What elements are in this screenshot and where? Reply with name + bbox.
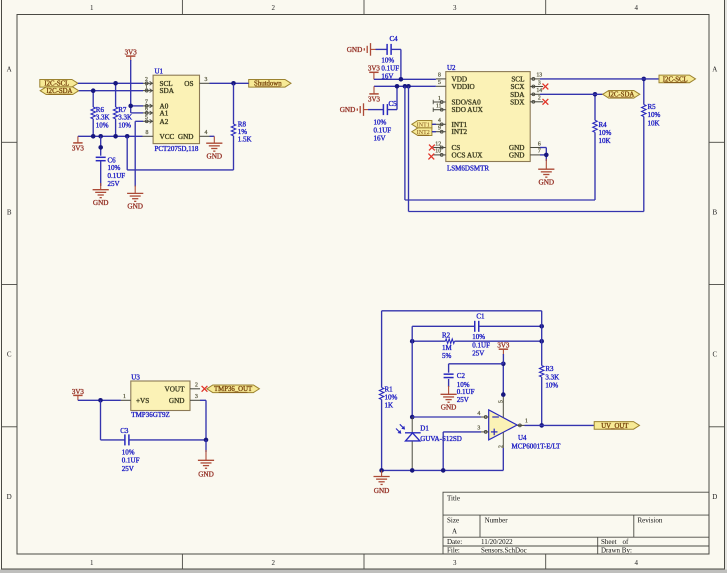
- svg-text:A1: A1: [160, 109, 169, 117]
- wire VDD net: [374, 78, 436, 80]
- ground C2 GND: [441, 393, 457, 395]
- port I2C-SDA right: [603, 91, 640, 99]
- svg-text:GND: GND: [539, 178, 555, 186]
- U2 pin 7 GND: [530, 154, 540, 156]
- svg-text:C3: C3: [120, 427, 129, 435]
- svg-text:3V3: 3V3: [368, 96, 381, 104]
- svg-text:10%: 10%: [385, 393, 398, 401]
- svg-text:2: 2: [271, 4, 275, 12]
- junction R7-SCL: [113, 81, 118, 86]
- svg-text:25V: 25V: [122, 465, 134, 473]
- svg-text:2: 2: [271, 559, 275, 567]
- svg-text:8: 8: [146, 130, 149, 136]
- svg-text:25V: 25V: [108, 180, 120, 188]
- svg-text:C2: C2: [457, 372, 466, 380]
- svg-text:GND: GND: [509, 151, 525, 159]
- svg-text:PCT2075D,118: PCT2075D,118: [155, 145, 199, 153]
- svg-text:11/20/2022: 11/20/2022: [481, 538, 513, 546]
- svg-text:10%: 10%: [545, 381, 558, 389]
- svg-text:INT2: INT2: [452, 128, 468, 136]
- ground A2 GND: [127, 192, 143, 194]
- power 3V3 U3: [73, 394, 82, 396]
- svg-text:U4: U4: [518, 434, 527, 442]
- junction rail C6: [98, 134, 103, 139]
- svg-text:7: 7: [538, 149, 541, 155]
- wire INT1: [432, 123, 436, 125]
- U1 pin 2 SCL: [143, 82, 153, 84]
- svg-text:R4: R4: [599, 121, 608, 129]
- capacitor C3: [100, 400, 102, 440]
- svg-text:4: 4: [635, 559, 639, 567]
- U2 pin 13 SCL: [530, 78, 540, 80]
- wire INT2: [432, 131, 436, 133]
- resistor R3: [541, 311, 543, 366]
- ground power C4 GND: [370, 43, 372, 56]
- svg-text:B: B: [712, 209, 717, 217]
- svg-text:Date:: Date:: [447, 538, 462, 546]
- port I2C-SDA left: [40, 87, 78, 95]
- svg-text:VOUT: VOUT: [165, 385, 186, 393]
- svg-text:25V: 25V: [472, 349, 484, 357]
- ground C6 GND: [93, 189, 109, 191]
- svg-text:Sensors.SchDoc: Sensors.SchDoc: [481, 546, 527, 554]
- U2 pin 4 INT1: [433, 123, 446, 125]
- junction C3 GND node: [204, 438, 209, 443]
- svg-text:0.1UF: 0.1UF: [457, 388, 475, 396]
- svg-text:SDA: SDA: [160, 87, 175, 95]
- ground U1 GND: [206, 142, 222, 144]
- no-ERC CS: [429, 145, 435, 151]
- junction vertB VDDIO: [406, 84, 411, 89]
- svg-text:10%: 10%: [118, 121, 131, 129]
- svg-text:10%: 10%: [122, 449, 135, 457]
- junction C1 right: [539, 324, 544, 329]
- svg-text:C5: C5: [389, 100, 398, 108]
- wire U3 GND down: [200, 399, 206, 401]
- svg-text:3V3: 3V3: [497, 342, 510, 350]
- no-ERC SCX: [543, 84, 549, 90]
- junction C5 VDDIO: [395, 84, 400, 89]
- U1 pin 8 VCC: [143, 135, 154, 137]
- wire top rail: [382, 310, 542, 312]
- svg-text:0.1UF: 0.1UF: [381, 64, 399, 72]
- svg-text:5: 5: [438, 80, 441, 86]
- svg-text:3V3: 3V3: [125, 49, 138, 57]
- junction C4 VDD: [399, 77, 404, 82]
- junction +VS C3: [98, 398, 103, 403]
- svg-text:Size: Size: [447, 516, 459, 524]
- component U3 body: [131, 381, 190, 411]
- svg-text:16V: 16V: [374, 134, 386, 142]
- wire VDDIO branch B: [408, 86, 410, 211]
- svg-text:10%: 10%: [374, 118, 387, 126]
- svg-text:SCX: SCX: [511, 83, 526, 91]
- no-ERC SDX: [543, 99, 549, 105]
- no-ERC VOUT: [202, 386, 208, 392]
- capacitor C1: [412, 325, 475, 327]
- svg-text:A: A: [452, 528, 457, 536]
- svg-text:0.1UF: 0.1UF: [374, 126, 392, 134]
- junction inverting input: [410, 415, 415, 420]
- svg-text:D: D: [7, 493, 12, 501]
- svg-text:4: 4: [635, 4, 639, 12]
- U3 pin 2 VOUT: [190, 388, 200, 390]
- component U1 body: [153, 75, 199, 143]
- resistor R5: [642, 105, 646, 117]
- svg-text:A2: A2: [160, 118, 169, 126]
- frame row ticks: [2, 141, 18, 143]
- U1 pin 4 GND: [200, 135, 210, 137]
- junction R4 SDA: [593, 92, 598, 97]
- junction R5 SCL: [642, 77, 647, 82]
- svg-text:File:: File:: [447, 546, 460, 554]
- svg-text:4: 4: [477, 411, 480, 417]
- svg-text:5: 5: [498, 400, 504, 403]
- U2 pin 11 SDO AUX: [433, 109, 446, 111]
- power 3V3 left: [77, 136, 79, 143]
- svg-text:3: 3: [453, 559, 457, 567]
- wire OS net: [210, 82, 249, 84]
- wire U2 GND pins: [540, 147, 546, 149]
- svg-text:2: 2: [499, 445, 505, 448]
- svg-text:B: B: [7, 209, 12, 217]
- ground power C5 GND: [363, 103, 365, 116]
- svg-text:25V: 25V: [457, 396, 469, 404]
- svg-text:3.3K: 3.3K: [545, 373, 559, 381]
- svg-text:GUVA-S12SD: GUVA-S12SD: [420, 435, 462, 443]
- port UV_OUT: [594, 422, 639, 430]
- wire A2 to GND: [135, 120, 143, 122]
- svg-text:10%: 10%: [381, 56, 394, 64]
- component U2 body: [446, 72, 530, 162]
- svg-text:GND: GND: [340, 106, 356, 114]
- wire bottom gnd rail: [382, 469, 504, 471]
- svg-text:R5: R5: [648, 103, 657, 111]
- svg-text:5%: 5%: [442, 352, 452, 360]
- svg-text:1: 1: [90, 4, 94, 12]
- U2 pin 9 INT2: [433, 131, 446, 133]
- svg-text:SDX: SDX: [510, 98, 525, 106]
- junction rail R8-return: [125, 134, 130, 139]
- svg-text:Revision: Revision: [638, 516, 663, 524]
- U4 pin 4 inverting: [481, 416, 489, 418]
- wire VDDIO branch A: [404, 86, 406, 200]
- svg-text:14: 14: [536, 88, 542, 94]
- svg-text:C: C: [7, 351, 12, 359]
- svg-text:1: 1: [90, 559, 94, 567]
- svg-text:VDDIO: VDDIO: [452, 83, 475, 91]
- power 3V3 U4: [499, 348, 508, 350]
- svg-text:A: A: [7, 66, 12, 74]
- wire GND stem U3: [205, 440, 207, 452]
- svg-text:R2: R2: [442, 332, 451, 340]
- U3 pin 1 +VS: [121, 399, 131, 401]
- U1 pin 1 SDA: [143, 90, 153, 92]
- svg-text:0.1UF: 0.1UF: [472, 341, 490, 349]
- svg-text:2: 2: [538, 96, 541, 102]
- svg-text:D1: D1: [420, 425, 429, 433]
- svg-text:10%: 10%: [599, 129, 612, 137]
- no-ERC OCS AUX: [428, 154, 434, 160]
- junction rail R1: [379, 468, 384, 473]
- svg-text:4: 4: [205, 130, 208, 136]
- port I2C-SCL right: [659, 75, 696, 83]
- svg-text:6: 6: [538, 141, 541, 147]
- power 3V3 VDDIO: [373, 86, 375, 94]
- junction rail D1: [410, 468, 415, 473]
- frame column ticks: [181, 0, 183, 15]
- U2 pin 2 SDX: [530, 101, 543, 103]
- svg-text:R3: R3: [545, 365, 554, 373]
- wire +VS net: [78, 399, 121, 401]
- svg-text:GND: GND: [441, 404, 457, 412]
- op-amp U4 body: [489, 410, 517, 440]
- resistor R7: [115, 83, 117, 107]
- svg-text:R1: R1: [385, 385, 394, 393]
- svg-text:3V3: 3V3: [72, 388, 85, 396]
- svg-text:10%: 10%: [472, 333, 485, 341]
- svg-text:LSM6DSMTR: LSM6DSMTR: [447, 164, 489, 172]
- U1 pin 7 A0: [143, 105, 153, 107]
- svg-text:10%: 10%: [648, 111, 661, 119]
- svg-text:8: 8: [438, 73, 441, 79]
- U4 pin 1 output: [517, 424, 524, 426]
- svg-text:3: 3: [195, 394, 198, 400]
- wire inverting input: [412, 416, 481, 418]
- svg-text:GND: GND: [178, 133, 194, 141]
- D1 photon arrows: [400, 424, 404, 428]
- wire SCL net U2: [540, 78, 659, 80]
- junction R6-SDA: [91, 88, 96, 93]
- wire VDDIO net: [374, 85, 436, 87]
- svg-text:2: 2: [195, 383, 198, 389]
- junction A0 node: [128, 104, 133, 109]
- title block outline: [443, 492, 709, 554]
- junction vertA VDDIO: [403, 84, 408, 89]
- svg-text:Number: Number: [485, 516, 509, 524]
- resistor R4: [593, 120, 597, 132]
- U2 pin 1 SDO/SA0: [433, 101, 446, 103]
- svg-text:3: 3: [477, 426, 480, 432]
- U2 pin 14 SDA: [530, 93, 540, 95]
- wire R8 return to VCC: [127, 169, 233, 171]
- svg-text:3: 3: [205, 77, 208, 83]
- ground U2 GND: [538, 168, 554, 170]
- svg-text:Drawn By:: Drawn By:: [601, 546, 632, 554]
- svg-text:3V3: 3V3: [72, 145, 85, 153]
- svg-text:Title: Title: [447, 495, 460, 503]
- port Shutdown: [249, 80, 291, 88]
- ground U3 GND: [198, 459, 214, 461]
- svg-text:GND: GND: [93, 199, 109, 207]
- svg-text:U1: U1: [155, 68, 164, 76]
- junction output node: [539, 423, 544, 428]
- svg-text:U3: U3: [131, 373, 140, 381]
- svg-text:3: 3: [538, 80, 541, 86]
- svg-text:10%: 10%: [96, 121, 109, 129]
- capacitor C5: [364, 109, 369, 111]
- U4 pin 3 non-inverting: [481, 431, 489, 433]
- U1 pin 6 A1: [143, 112, 153, 114]
- junction 3V3 node: [501, 362, 506, 367]
- svg-text:VCC: VCC: [160, 133, 175, 141]
- resistor R6: [92, 91, 94, 107]
- port TMP36_OUT: [207, 385, 260, 393]
- junction R2 right: [539, 339, 544, 344]
- junction rail non-inv: [441, 468, 446, 473]
- svg-text:+VS: +VS: [136, 397, 149, 405]
- U3 pin 3 GND: [190, 399, 200, 401]
- svg-text:10K: 10K: [599, 137, 611, 145]
- svg-text:GND: GND: [198, 471, 214, 479]
- U2 pin 10 OCS AUX: [433, 154, 446, 156]
- svg-text:MCP6001T-E/LT: MCP6001T-E/LT: [512, 443, 562, 451]
- junction rail R6: [91, 134, 96, 139]
- capacitor C2: [448, 364, 450, 373]
- ground U4 GND: [374, 476, 390, 478]
- wire GND stem U4: [381, 470, 383, 476]
- port INT2: [412, 128, 432, 136]
- svg-text:GND: GND: [347, 46, 363, 54]
- port I2C-SCL left: [40, 80, 78, 88]
- U2 pin 3 SCX: [530, 86, 543, 88]
- junction GND pins: [544, 153, 549, 158]
- svg-text:Sheet: Sheet: [601, 538, 617, 546]
- wire non-inverting to gnd rail: [443, 431, 481, 433]
- svg-text:10%: 10%: [108, 164, 121, 172]
- svg-text:of: of: [623, 538, 630, 546]
- svg-text:C4: C4: [390, 35, 399, 43]
- U2 pin 8 VDD: [436, 78, 446, 80]
- svg-text:GND: GND: [169, 397, 185, 405]
- svg-text:13: 13: [536, 73, 542, 79]
- svg-text:3: 3: [453, 4, 457, 12]
- wire output net: [525, 424, 595, 426]
- svg-text:A: A: [712, 66, 717, 74]
- wire U1 GND pin: [210, 135, 215, 137]
- U1 pin 5 A2: [143, 120, 153, 122]
- svg-text:OS: OS: [184, 80, 193, 88]
- U2 pin 12 CS: [433, 147, 446, 149]
- junction rail R7: [113, 134, 118, 139]
- svg-text:1.5K: 1.5K: [238, 136, 252, 144]
- wire V- to rail: [502, 448, 504, 470]
- svg-text:U2: U2: [447, 64, 456, 72]
- wire inverting node column: [411, 326, 413, 417]
- resistor R2: [412, 340, 445, 342]
- wire V+ to 3V3: [502, 364, 504, 395]
- svg-text:SDO AUX: SDO AUX: [452, 106, 484, 114]
- svg-text:0.1UF: 0.1UF: [122, 457, 140, 465]
- wire VCC rail: [78, 135, 143, 137]
- svg-text:GND: GND: [127, 203, 143, 211]
- svg-text:C1: C1: [476, 313, 485, 321]
- wire 3V3 to A0/A1: [130, 56, 132, 61]
- svg-text:1K: 1K: [385, 402, 394, 410]
- junction V+ wire: [501, 392, 506, 397]
- resistor R1: [381, 311, 383, 388]
- resistor R8: [233, 83, 235, 124]
- svg-text:1: 1: [525, 419, 528, 425]
- svg-text:3V3: 3V3: [368, 65, 381, 73]
- svg-text:OCS AUX: OCS AUX: [452, 151, 484, 159]
- wire SCL net: [78, 82, 143, 84]
- wire SDA net U2: [540, 93, 603, 95]
- svg-text:10K: 10K: [648, 119, 660, 127]
- svg-text:0.1UF: 0.1UF: [108, 172, 126, 180]
- svg-text:1: 1: [123, 394, 126, 400]
- svg-text:C: C: [712, 351, 717, 359]
- junction OS R8: [231, 81, 236, 86]
- svg-text:D: D: [712, 493, 717, 501]
- U2 pin 6 GND: [530, 147, 540, 149]
- U2 pin 5 VDDIO: [436, 85, 446, 87]
- svg-text:GND: GND: [207, 152, 223, 160]
- svg-text:TMP36GT9Z: TMP36GT9Z: [131, 411, 170, 419]
- U1 pin 3 OS: [200, 82, 210, 84]
- svg-text:GND: GND: [374, 487, 390, 495]
- wire 3V3 to C2: [449, 363, 504, 365]
- capacitor C6: [100, 136, 102, 155]
- power 3V3 top: [126, 55, 135, 57]
- power 3V3 VDD: [369, 71, 378, 73]
- capacitor C4: [371, 48, 376, 50]
- U4 pin 5 V+: [502, 395, 504, 418]
- diode D1 GUVA-S12SD: [411, 417, 413, 433]
- wire SDA net: [79, 90, 143, 92]
- port INT1: [412, 121, 432, 129]
- junction R2 left: [410, 339, 415, 344]
- U4 pin 2 V-: [502, 432, 504, 448]
